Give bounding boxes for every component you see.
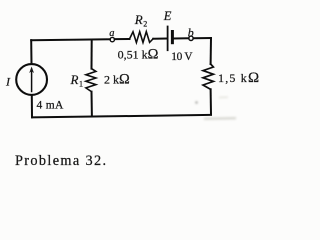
svg-text:b: b [188, 25, 194, 39]
svg-text:R: R [134, 12, 143, 27]
svg-text:10 V: 10 V [171, 51, 193, 63]
svg-text:2: 2 [143, 20, 147, 29]
wire left branch lower [31, 96, 33, 117]
current source arrowhead [29, 67, 34, 74]
battery E short plate [171, 32, 174, 43]
bottom wire [32, 115, 211, 118]
wire R1 branch lower [91, 92, 93, 117]
resistor R2 [130, 32, 154, 43]
wire battery to node b [174, 37, 189, 39]
battery E long plate [167, 27, 169, 51]
wire R1 branch upper [91, 39, 93, 68]
svg-text:Problema 32.: Problema 32. [15, 153, 107, 169]
svg-text:a: a [109, 28, 114, 39]
wire R2 to battery [153, 38, 167, 40]
wire right branch upper [210, 38, 212, 64]
svg-text:4 mA: 4 mA [37, 100, 64, 112]
svg-text:0,51 kΩ: 0,51 kΩ [118, 47, 159, 63]
resistor R1 zigzag [86, 69, 96, 92]
svg-text:E: E [163, 9, 172, 23]
wire top-left to node a [31, 38, 110, 41]
scan smudge under bottom-right wire [195, 97, 236, 119]
resistor 1.5k zigzag [203, 64, 213, 89]
wire node b to top-right corner [193, 37, 211, 39]
current source arrow [31, 70, 33, 92]
wire node a to R2 [115, 38, 130, 40]
svg-text:1: 1 [79, 80, 83, 89]
svg-text:2 kΩ: 2 kΩ [104, 72, 130, 88]
node a [110, 37, 114, 41]
current source I circle [16, 64, 47, 95]
wire right branch lower [210, 89, 212, 114]
wire left branch upper [30, 40, 32, 63]
node b [189, 36, 193, 40]
svg-text:1,5 kΩ: 1,5 kΩ [218, 70, 260, 86]
svg-text:R: R [70, 72, 79, 87]
